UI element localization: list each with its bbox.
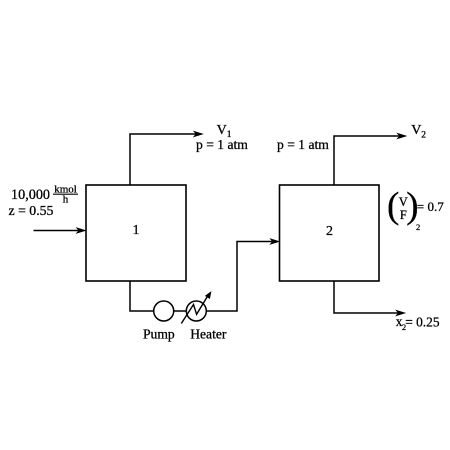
svg-text:= 0.7: = 0.7 (417, 199, 444, 214)
svg-text:p = 1 atm: p = 1 atm (196, 137, 248, 152)
svg-text:10,000: 10,000 (11, 187, 50, 203)
svg-text:1: 1 (133, 223, 140, 238)
svg-text:(: ( (387, 186, 399, 227)
svg-text:Pump: Pump (143, 326, 175, 341)
svg-text:2: 2 (326, 224, 333, 239)
svg-text:2: 2 (421, 130, 426, 140)
svg-text:2: 2 (416, 222, 420, 232)
svg-text:V: V (399, 195, 408, 209)
svg-text:= 0.25: = 0.25 (405, 314, 440, 329)
svg-text:V: V (217, 123, 227, 138)
svg-text:Heater: Heater (190, 326, 227, 341)
svg-text:z = 0.55: z = 0.55 (9, 203, 54, 218)
svg-text:V: V (411, 123, 421, 138)
svg-text:F: F (400, 208, 407, 222)
svg-text:h: h (63, 193, 69, 205)
svg-text:p = 1 atm: p = 1 atm (277, 137, 329, 152)
